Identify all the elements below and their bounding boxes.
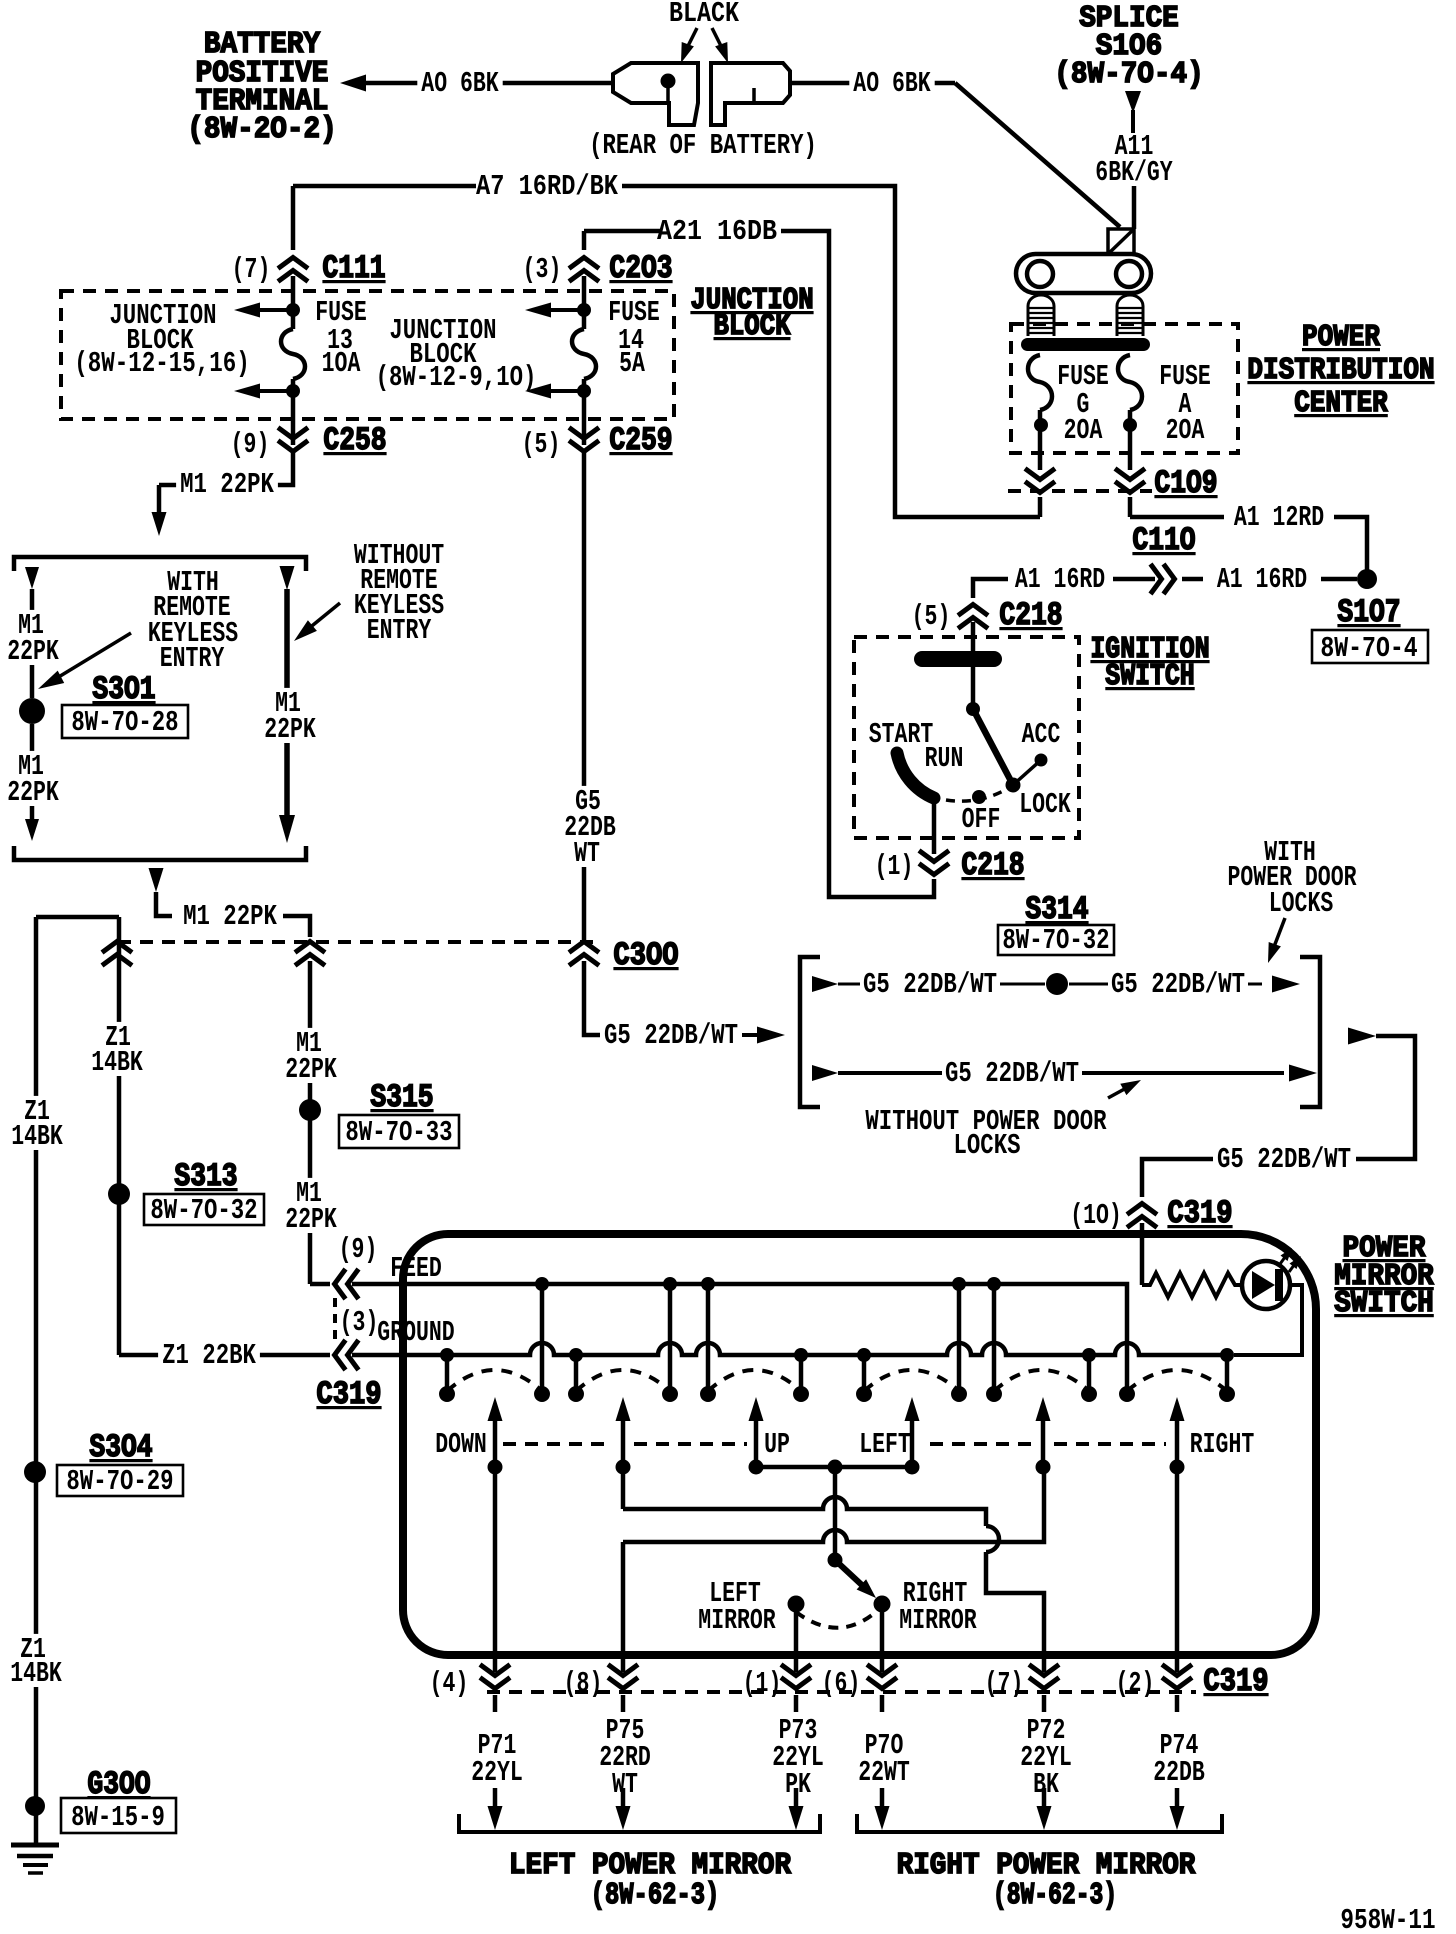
splice S313 [108, 1183, 130, 1205]
svg-text:14BK: 14BK [11, 1120, 63, 1153]
label Z1 14BK (x=119 wire) [101, 1022, 135, 1051]
svg-text:(3): (3) [340, 1306, 379, 1339]
label Z1 14BK (x=36 wire) [20, 1096, 54, 1125]
wire P75 22RDWT [621, 1695, 626, 1712]
svg-text:M1 22PK: M1 22PK [183, 900, 277, 933]
wire P70 22WT [880, 1695, 885, 1712]
ignition OFF dashed arc [946, 789, 1007, 801]
GROUND bus inside switch with crossover hops [352, 1343, 1227, 1355]
bus bar [1021, 338, 1150, 351]
left M1 wire with splice S301 [25, 567, 39, 589]
svg-text:(1): (1) [875, 850, 914, 883]
battery terminal connector (rear of battery) [613, 63, 698, 125]
G5 wire with power door locks (row 1) with splice S314 [812, 976, 838, 992]
mirror selector switch [828, 1553, 843, 1568]
connector C109 [1008, 489, 1152, 493]
svg-text:(5): (5) [522, 428, 561, 461]
fuse A 20A [1118, 355, 1142, 410]
svg-text:RIGHT: RIGHT [1190, 1428, 1255, 1461]
svg-text:22DB: 22DB [1153, 1756, 1205, 1789]
svg-text:A1 16RD: A1 16RD [1217, 563, 1307, 596]
svg-text:Z1 22BK: Z1 22BK [162, 1339, 256, 1372]
svg-text:2OA: 2OA [1166, 414, 1205, 447]
svg-text:UP: UP [764, 1428, 790, 1461]
battery feed bus with ring terminals [1016, 254, 1151, 293]
door lock bracket left [800, 957, 820, 1107]
fuse G 20A [1028, 355, 1052, 410]
threaded stud right [1117, 295, 1143, 336]
wire P74 22DB [1175, 1695, 1180, 1712]
svg-text:(9): (9) [231, 428, 270, 461]
svg-text:MIRROR: MIRROR [899, 1604, 977, 1637]
feed contact drops [540, 1284, 545, 1394]
wire AO 6BK from battery to splice A11 crimp [790, 81, 955, 86]
label M1 22PK below S315 [292, 1178, 326, 1207]
ignition LOCK contact dot [1006, 778, 1021, 793]
connector C319 bottom dashed line [487, 1690, 1196, 1694]
svg-text:(1O): (1O) [1070, 1199, 1122, 1232]
svg-text:A1 12RD: A1 12RD [1234, 501, 1324, 534]
svg-text:(9): (9) [339, 1233, 378, 1266]
svg-text:ACC: ACC [1022, 718, 1061, 751]
svg-text:AO 6BK: AO 6BK [421, 67, 499, 100]
connector C319 pin (6) [867, 1665, 897, 1676]
connector C319 pin (1) [781, 1665, 811, 1676]
connector C319 pin (2) [1162, 1665, 1192, 1676]
ignition ACC contact dot [1035, 754, 1048, 767]
S301 group top bracket [14, 557, 306, 571]
arrow from splice label down to wire A11 [1125, 91, 1141, 113]
ignition OFF contact dot [972, 790, 986, 804]
svg-text:A21 16DB: A21 16DB [657, 215, 777, 248]
svg-text:958W-11: 958W-11 [1340, 1904, 1435, 1934]
svg-text:8W-15-9: 8W-15-9 [71, 1801, 165, 1834]
svg-text:LOCK: LOCK [1019, 788, 1071, 821]
wire A7 16RD/BK to C111 [472, 171, 622, 200]
ignition switch lever to LOCK [973, 709, 1012, 783]
svg-text:22PK: 22PK [264, 713, 316, 746]
svg-text:G5 22DB/WT: G5 22DB/WT [1217, 1143, 1351, 1176]
svg-text:RUN: RUN [925, 742, 964, 775]
svg-text:G5 22DB/WT: G5 22DB/WT [1111, 968, 1245, 1001]
splice S107 [1357, 569, 1377, 589]
svg-text:G5 22DB/WT: G5 22DB/WT [863, 968, 997, 1001]
actuator common dots [488, 1460, 503, 1475]
leader arrows from BLACK to battery connectors [685, 28, 697, 52]
leader arrow to right M1 wire [302, 603, 340, 634]
M1 22PK output of S301 group [149, 868, 164, 892]
svg-text:(1): (1) [743, 1667, 782, 1700]
svg-text:GROUND: GROUND [377, 1316, 454, 1349]
svg-text:14BK: 14BK [91, 1046, 143, 1079]
svg-text:WT: WT [574, 837, 600, 870]
svg-text:(8W-12-9,1O): (8W-12-9,1O) [376, 361, 537, 394]
svg-text:OFF: OFF [962, 803, 1001, 836]
left power mirror bracket [459, 1814, 820, 1832]
svg-text:(4): (4) [430, 1667, 469, 1700]
rocker gang dashed lines [503, 1442, 612, 1446]
svg-text:A7 16RD/BK: A7 16RD/BK [476, 170, 618, 203]
leader arrow to S301 splice [52, 633, 131, 681]
wire fuse G output to A7 junction [1038, 497, 1043, 517]
pin 6 wire [880, 1604, 885, 1672]
wire P72 22YLBK [1042, 1695, 1047, 1712]
wire G5 22DB WT from C259 down through C300 [582, 451, 587, 942]
wire Z1 22BK into switch [119, 1353, 330, 1358]
svg-text:22PK: 22PK [285, 1053, 337, 1086]
svg-text:(7): (7) [985, 1667, 1024, 1700]
svg-text:22PK: 22PK [7, 635, 59, 668]
svg-text:A1 16RD: A1 16RD [1015, 563, 1105, 596]
power mirror switch outline [403, 1234, 1316, 1655]
svg-text:22PK: 22PK [7, 776, 59, 809]
pin 4 wire (DOWN) [493, 1467, 498, 1672]
wire A1 16RD from S107 to ignition switch [1321, 577, 1357, 582]
ground symbol [11, 1843, 59, 1848]
ignition switch feed bar [914, 651, 1002, 667]
G5 output arrow to power mirror switch [1348, 1028, 1376, 1045]
wire P71 22YL [493, 1695, 498, 1712]
right M1 wire (without RKE) [280, 566, 295, 590]
right power mirror bracket [857, 1814, 1222, 1832]
pin 1 wire [794, 1604, 799, 1672]
leader arrow with power door locks [1272, 918, 1285, 952]
wire A21 16DB from ignition to junction block fuse 14 [775, 231, 934, 897]
connector C319 pin (8) [608, 1665, 638, 1676]
svg-text:6BK/GY: 6BK/GY [1095, 156, 1173, 189]
svg-text:(8W-12-15,16): (8W-12-15,16) [74, 347, 250, 380]
C300 chevron on M1 wire [295, 942, 325, 953]
svg-text:G5 22DB/WT: G5 22DB/WT [945, 1057, 1079, 1090]
ignition switch rotor pivot [966, 702, 980, 716]
threaded stud left [1028, 295, 1054, 336]
wire AO 6BK to battery terminal [366, 81, 613, 86]
svg-text:8W-7O-4: 8W-7O-4 [1320, 632, 1417, 665]
svg-text:5A: 5A [619, 347, 645, 380]
connector C319 pin (7) [1029, 1665, 1059, 1676]
LED indicator [1242, 1261, 1290, 1309]
selector feed wire [833, 1467, 838, 1556]
up-left common link [756, 1465, 912, 1470]
ignition switch START-RUN contact arc [897, 753, 934, 798]
ground contact stubs [445, 1355, 450, 1394]
LED light rays [1280, 1253, 1288, 1264]
svg-text:22PK: 22PK [285, 1203, 337, 1236]
svg-text:LOCKS: LOCKS [954, 1129, 1021, 1162]
inline connector on A1 16RD [1151, 564, 1162, 594]
C300 chevron on G5 wire [569, 942, 599, 953]
connector C319 pin 3 chevron [335, 1340, 346, 1370]
svg-text:(8W-2O-2): (8W-2O-2) [187, 112, 336, 147]
svg-text:(6): (6) [822, 1667, 861, 1700]
svg-text:2OA: 2OA [1064, 414, 1103, 447]
ignition switch output wire [932, 799, 937, 854]
svg-text:LEFT: LEFT [859, 1428, 911, 1461]
pin 8 wire and cross-links [621, 1467, 626, 1509]
svg-text:(8W-62-3): (8W-62-3) [993, 1878, 1117, 1913]
label M1 22PK above S315 [292, 1028, 326, 1057]
label Z1 14BK above G300 [16, 1634, 50, 1663]
svg-text:8W-7O-29: 8W-7O-29 [66, 1465, 173, 1498]
splice S304 [24, 1461, 46, 1483]
dashed connector link [333, 1298, 337, 1341]
svg-text:(8): (8) [564, 1667, 603, 1700]
svg-text:ENTRY: ENTRY [367, 614, 432, 647]
G5 wire without power door locks (row 2) [812, 1065, 838, 1081]
svg-text:(8W-7O-4): (8W-7O-4) [1054, 57, 1203, 92]
wire P73 22YLPK [794, 1695, 799, 1712]
pin 2 wire (RIGHT) [1175, 1467, 1180, 1672]
svg-text:(7): (7) [232, 253, 271, 286]
actuator arrows [488, 1397, 503, 1421]
svg-text:8W-7O-28: 8W-7O-28 [71, 706, 178, 739]
svg-text:(2): (2) [1116, 1667, 1155, 1700]
fuse 13 wire and taps [291, 276, 296, 329]
crimp splice symbol at power distribution center [1108, 229, 1134, 254]
LED indicator resistor [1142, 1273, 1242, 1297]
wire G5 22DB/WT into door lock brackets [600, 1020, 742, 1049]
splice S315 [299, 1099, 321, 1121]
ignition switch dashed box [854, 637, 1079, 838]
arrow to battery positive terminal [340, 75, 366, 92]
arrow down to relay group [157, 485, 162, 516]
power distribution center dashed box [1011, 324, 1238, 453]
wire fuse A output A1 12RD [1128, 497, 1133, 517]
svg-text:8W-7O-32: 8W-7O-32 [150, 1194, 257, 1227]
junction block dashed box [61, 291, 674, 419]
ground G300 [25, 1796, 45, 1816]
leader arrow without power door locks [1108, 1086, 1130, 1098]
fuse 14 wire and taps [582, 276, 587, 329]
svg-text:M1 22PK: M1 22PK [180, 468, 274, 501]
svg-text:BLACK: BLACK [669, 0, 739, 30]
wire M1 22PK from C258 [159, 451, 293, 485]
svg-text:START: START [869, 718, 934, 751]
LED cathode to ground [1234, 1285, 1302, 1355]
wire M1 feed into switch [310, 1282, 330, 1287]
svg-text:AO 6BK: AO 6BK [853, 67, 931, 100]
svg-text:22YL: 22YL [471, 1756, 523, 1789]
Z1 ground wire top corner [36, 915, 119, 920]
svg-text:22WT: 22WT [858, 1756, 910, 1789]
svg-text:8W-7O-33: 8W-7O-33 [345, 1116, 452, 1149]
C300 chevron on Z1 wire [102, 942, 132, 953]
svg-text:ENTRY: ENTRY [160, 642, 225, 675]
svg-text:1OA: 1OA [322, 347, 361, 380]
svg-text:FEED: FEED [390, 1252, 442, 1285]
connector C300 dashed line [118, 940, 599, 944]
svg-text:MIRROR: MIRROR [698, 1604, 776, 1637]
rocker contact dashed arcs [447, 1370, 542, 1391]
svg-text:(5): (5) [912, 600, 951, 633]
svg-text:(3): (3) [523, 253, 562, 286]
connector C319 pin (4) [480, 1665, 510, 1676]
svg-text:14BK: 14BK [10, 1657, 62, 1690]
FEED bus inside switch [352, 1284, 1127, 1394]
svg-text:(8W-62-3): (8W-62-3) [591, 1878, 720, 1913]
S301 group bottom bracket [14, 846, 306, 860]
svg-text:G5 22DB/WT: G5 22DB/WT [604, 1019, 738, 1052]
svg-text:(REAR OF BATTERY): (REAR OF BATTERY) [589, 129, 817, 162]
svg-text:DOWN: DOWN [435, 1428, 487, 1461]
svg-text:LOCKS: LOCKS [1269, 887, 1334, 920]
svg-text:8W-7O-32: 8W-7O-32 [1002, 924, 1109, 957]
door lock bracket right [1300, 957, 1320, 1107]
